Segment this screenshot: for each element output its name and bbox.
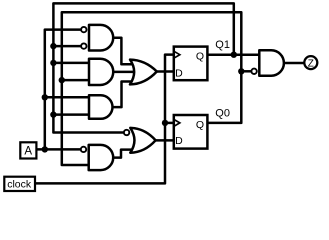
wire A bus up to AND1 upper inverted input	[45, 30, 82, 150]
svg-text:clock: clock	[7, 178, 32, 190]
node Q1 bus to AND3	[50, 111, 56, 117]
node A bus junction on input A wire	[42, 146, 48, 152]
svg-text:Q1: Q1	[215, 39, 230, 51]
input port A	[20, 142, 36, 158]
and-gate G1 (inverted inputs /A, /Q1)	[89, 25, 113, 51]
output port Z	[304, 56, 317, 69]
node Q0 junction to AND5 inverted input	[238, 68, 244, 74]
wire OR2 output to U2 D input	[155, 139, 175, 142]
wire stub Q1 bus to AND1 lower inverted input	[53, 45, 81, 48]
svg-text:Q0: Q0	[215, 107, 230, 119]
node clock junction at U2 clock	[162, 120, 168, 126]
svg-text:Q: Q	[196, 51, 204, 63]
svg-text:D: D	[175, 135, 183, 147]
wire stub Q1 bus to AND3 lower input	[53, 113, 90, 116]
node Q1 junction on U1 Q output wire	[231, 52, 237, 58]
d-flip-flop U2 (Q0)	[174, 115, 208, 149]
and-gate G3 (inputs A, Q1)	[89, 95, 112, 119]
node A bus to AND3	[42, 94, 48, 100]
or-gate G6 (OR with inverted top input driving D of U2)	[130, 128, 155, 153]
node Q1 bus to AND2	[50, 60, 56, 66]
inverter bubble G1 top input	[81, 27, 86, 32]
input port clock	[4, 177, 35, 191]
or-gate G5 (3-input OR driving D of U1)	[130, 60, 157, 85]
wire stub A bus to AND3 upper input	[45, 96, 91, 99]
and-gate G7 (output gate Z = Q1 AND /Q0)	[259, 50, 284, 75]
wire U1 Q output (node Q1) to AND5 top input	[207, 53, 260, 56]
d-flip-flop U1 (Q1)	[174, 47, 208, 81]
svg-text:A: A	[24, 146, 32, 158]
wire stub Q0 bus to AND2 lower input	[62, 79, 91, 82]
wire clock to U1 clock input	[35, 55, 175, 184]
svg-text:Z: Z	[308, 58, 314, 69]
inverter bubble G4 top input	[81, 147, 86, 152]
node Q0 bus to AND2	[59, 77, 65, 83]
wire AND3 output to OR1 bottom input	[112, 82, 137, 108]
wire OR1 output to U1 D input	[155, 70, 175, 73]
wire stub clock to U2 clock input	[165, 122, 175, 125]
and-gate G2 (inputs Q1, Q0)	[89, 59, 113, 85]
inverter bubble G7 bottom input	[251, 69, 256, 74]
wire AND4 output to OR2 bottom input	[111, 150, 137, 158]
wire AND2 output to OR1 middle input	[112, 71, 137, 74]
wire stub Q1 bus to AND2 upper input	[53, 62, 90, 65]
svg-text:D: D	[175, 67, 183, 79]
wire Q1 feedback bus (from Q1 node over the top to left bus, down to OR2 inverted input)	[53, 3, 233, 132]
inverter bubble G1 bottom input	[81, 43, 86, 48]
wire AND1 output to OR1 top input	[112, 38, 137, 64]
svg-text:Q: Q	[196, 119, 204, 131]
node Q1 bus to AND1	[50, 43, 56, 49]
wire stub Q0 bus to AND5 inverted input	[241, 70, 253, 73]
inverter bubble G6 top input	[124, 130, 129, 135]
wire Q0 feedback bus (from U2 Q output over the top to left bus, down to AND4 lower input)	[62, 12, 242, 165]
wire input A to AND4 inverted input	[36, 148, 81, 151]
wire AND5 output to Z	[284, 62, 305, 65]
and-gate G4 (inputs /A, Q0)	[89, 145, 114, 170]
